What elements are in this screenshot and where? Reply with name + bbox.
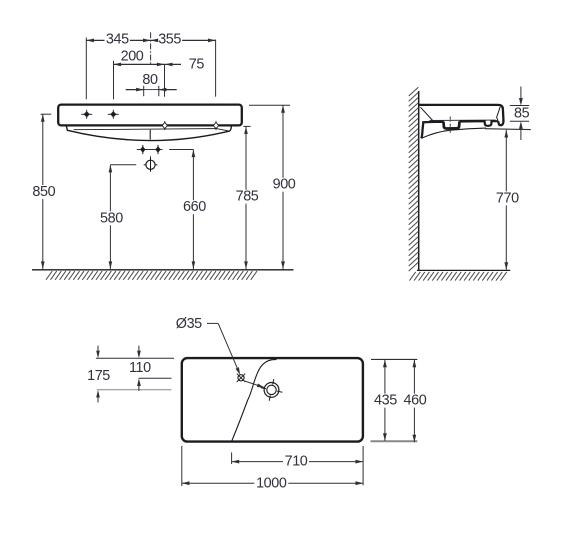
arrow centre from 345 [143,39,151,43]
svg-text:660: 660 [183,199,206,215]
side view: rim top thin line [430,119,496,121]
svg-text:785: 785 [236,189,259,205]
plan view: drain symbol [258,377,284,403]
arrow 80 right pointing left [159,88,167,92]
dim 110 [137,351,141,359]
dim 175 [96,351,100,359]
side view: inner back slope [420,107,433,121]
85 bottom extension [510,120,529,122]
front view: reference diamond left on deck bottom edge [162,121,167,130]
svg-text:770: 770 [496,190,519,206]
plan view: basin rect [182,358,363,442]
arrow 660 top [192,150,196,158]
arrow 580 bottom [109,261,113,269]
side view: drain centreline dash-dot [449,117,451,133]
front view: supply marker left [140,145,145,154]
arrow right end 200 [157,63,165,67]
svg-text:900: 900 [273,177,296,193]
leader arrow to faucet hole [236,367,241,375]
front view: bowl inner rim line [74,129,229,131]
side view: wall line [418,91,420,270]
svg-text:Ø35: Ø35 [176,316,202,332]
plan view: bowl boundary curve [232,360,277,441]
svg-text:80: 80 [142,72,158,88]
extension line x86 (left faucet hole) [85,38,87,100]
front view: supply line left segment [137,149,163,151]
dim 345/355 row [86,39,104,41]
arrow 770 top [504,130,508,138]
arrow 85 top pointing down [519,98,523,106]
dim 900 vertical line [282,105,284,269]
front view: supply line right segment [169,149,193,151]
dim 80 row [126,89,144,91]
dim 770 vertical line [505,130,507,270]
front view: reference diamond right on deck bottom edge [213,121,218,130]
extension line x164 (ref diamond) [164,64,166,97]
side view: drain cup [444,121,460,128]
arrow right end 355 [208,39,216,43]
front view: supply marker right [155,145,160,154]
tick 80 left [143,86,145,96]
side view: inner front slope [497,107,501,120]
tick 80 right [158,86,160,96]
arrow 80 left pointing right [136,88,144,92]
front view: faucet hole marker left [81,110,92,119]
front view: bowl outer curve [66,125,231,140]
dim 1000 [182,482,363,484]
dim 435 [384,360,386,441]
svg-text:175: 175 [87,368,110,384]
tick for 850 [41,113,52,115]
plan left extension lines [96,357,174,359]
side view: rim with overflow notch and back edge [459,121,498,126]
arrow 85 bottom pointing up [519,121,523,129]
front view: drain symbol [144,156,158,172]
front view: floor line [32,269,294,271]
svg-text:460: 460 [403,393,426,409]
front view: floor hatching [46,271,257,280]
arrow 850 top [41,114,45,122]
arrow 580 top [109,165,113,173]
arrow 900 bottom [281,261,285,269]
side view: underside curve [421,128,486,138]
front view: bowl centre tick [149,130,151,140]
svg-text:850: 850 [32,184,55,200]
arrow 785 bottom [244,261,248,269]
arrow 850 bottom [41,261,45,269]
dim 785 vertical line [245,126,247,269]
extension line for 900 at basin top [249,104,290,106]
svg-text:110: 110 [129,360,151,376]
arrow centre from 355 [151,39,159,43]
front view: washbasin outline rect [58,105,242,126]
front view: faucet hole marker right [108,110,119,119]
arrow 785 top [244,126,248,134]
arrow 660 bottom [192,261,196,269]
arrow 75 pointing left [165,63,173,67]
side view: basin profile top and right edge [419,105,504,125]
dim 75 [165,63,181,65]
tick for 785 [243,125,250,127]
85 top extension [510,105,529,107]
side view: rim left and back edge [421,122,444,139]
side view: floor line [417,269,510,271]
centre extension tick [150,32,152,65]
dim 660 vertical line [192,150,194,270]
dim 850 vertical line [42,114,44,269]
leader arrow toward drain [257,384,265,388]
svg-text:200: 200 [121,49,144,65]
extension line x215 (right ref) [215,40,217,97]
front view: drain level line to 580 dim [110,164,136,166]
dim 710 [232,461,364,463]
side view: floor hatching [410,272,507,281]
plan right extension lines [371,358,417,360]
svg-text:580: 580 [100,210,123,226]
plan bottom extension lines [362,446,364,485]
plan view: faucet hole symbol [237,374,245,382]
svg-text:355: 355 [158,32,181,48]
svg-text:85: 85 [514,106,530,122]
dim 200 row [114,63,165,65]
dim 580 vertical line [109,165,111,269]
svg-text:710: 710 [285,454,308,470]
side view: wall hatching [409,87,419,271]
svg-text:75: 75 [189,57,205,73]
svg-text:345: 345 [106,32,129,48]
side view: extension line to 770 [485,128,531,131]
svg-text:435: 435 [374,393,397,409]
arrow 770 bottom [504,262,508,270]
svg-text:1000: 1000 [256,475,287,491]
arrow left end 200 [114,63,122,67]
extension line x113 (second faucet hole) [113,61,115,99]
arrow left end 345 [86,39,94,43]
arrow 900 top [281,105,285,113]
dim 460 [413,360,415,443]
